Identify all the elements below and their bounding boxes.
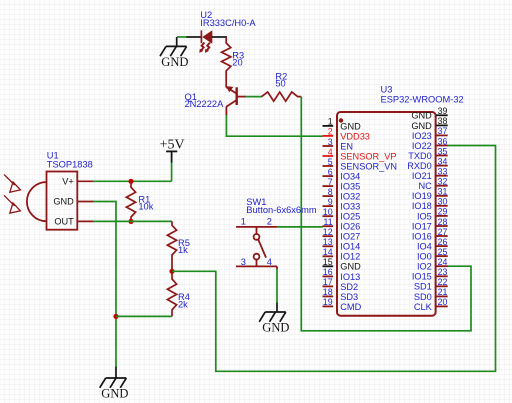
svg-text:3: 3 bbox=[328, 137, 333, 147]
wire SW1 pin 2 to IO26 pin 11 bbox=[277, 226, 323, 228]
svg-text:37: 37 bbox=[438, 126, 448, 136]
svg-text:SD0: SD0 bbox=[414, 292, 432, 302]
svg-text:GND: GND bbox=[161, 55, 188, 69]
svg-text:IO5: IO5 bbox=[417, 211, 432, 221]
junction node bbox=[128, 179, 133, 184]
svg-text:2: 2 bbox=[328, 127, 333, 137]
svg-text:5: 5 bbox=[328, 157, 333, 167]
svg-text:7: 7 bbox=[328, 177, 333, 187]
svg-text:IO22: IO22 bbox=[412, 141, 432, 151]
svg-text:12: 12 bbox=[323, 227, 333, 237]
svg-text:GND: GND bbox=[340, 262, 361, 272]
switch SW1 bbox=[236, 227, 277, 270]
svg-text:IO32: IO32 bbox=[340, 192, 360, 202]
junction node bbox=[128, 219, 133, 224]
svg-text:SD3: SD3 bbox=[340, 292, 358, 302]
svg-text:IO27: IO27 bbox=[340, 232, 360, 242]
ground (bottom-left GND flag) bbox=[100, 367, 127, 388]
svg-text:34: 34 bbox=[438, 156, 448, 166]
svg-text:22: 22 bbox=[438, 277, 448, 287]
IR arrows into U1 bbox=[4, 174, 20, 213]
svg-text:GND: GND bbox=[262, 321, 289, 335]
svg-text:6: 6 bbox=[328, 167, 333, 177]
svg-text:38: 38 bbox=[438, 116, 448, 126]
svg-text:50: 50 bbox=[275, 78, 285, 88]
svg-text:OUT: OUT bbox=[54, 216, 74, 226]
svg-text:IO2: IO2 bbox=[417, 262, 432, 272]
svg-text:IO12: IO12 bbox=[340, 252, 360, 262]
transistor Q1 bbox=[226, 87, 246, 115]
svg-text:2k: 2k bbox=[178, 300, 188, 310]
ground under SW1 bbox=[259, 303, 286, 322]
svg-text:20: 20 bbox=[232, 58, 242, 68]
junction node bbox=[169, 269, 174, 274]
svg-text:IO35: IO35 bbox=[340, 182, 360, 192]
svg-text:27: 27 bbox=[438, 227, 448, 237]
U3 left pin leads bbox=[323, 126, 334, 307]
svg-text:2: 2 bbox=[267, 217, 272, 227]
svg-text:18: 18 bbox=[323, 287, 333, 297]
svg-text:29: 29 bbox=[438, 207, 448, 217]
svg-text:RXD0: RXD0 bbox=[407, 161, 432, 171]
svg-text:13: 13 bbox=[323, 237, 333, 247]
resistor R3 bbox=[222, 37, 231, 73]
wire Q1 emitter to VDD33 pin 2 bbox=[226, 115, 322, 136]
svg-text:CMD: CMD bbox=[340, 302, 361, 312]
svg-text:IO33: IO33 bbox=[340, 202, 360, 212]
svg-text:TXD0: TXD0 bbox=[408, 151, 432, 161]
svg-text:IO17: IO17 bbox=[412, 221, 432, 231]
IR receiver U1 TSOP1838 bbox=[27, 172, 77, 230]
svg-text:+5V: +5V bbox=[160, 138, 185, 153]
svg-text:IO18: IO18 bbox=[412, 201, 432, 211]
svg-text:IO15: IO15 bbox=[412, 272, 432, 282]
svg-text:11: 11 bbox=[323, 217, 332, 227]
wire bbox=[187, 36, 202, 38]
wire V+ to +5V with junction at R1 bbox=[93, 180, 172, 182]
svg-text:30: 30 bbox=[438, 197, 448, 207]
svg-text:20: 20 bbox=[438, 297, 448, 307]
svg-text:15: 15 bbox=[323, 257, 333, 267]
svg-text:2N2222A: 2N2222A bbox=[185, 99, 225, 109]
svg-text:CLK: CLK bbox=[414, 302, 433, 312]
LED U2 bbox=[199, 30, 212, 53]
svg-text:9: 9 bbox=[328, 197, 333, 207]
svg-text:26: 26 bbox=[438, 237, 448, 247]
svg-text:IO19: IO19 bbox=[412, 191, 432, 201]
U3 left pin numbers bbox=[323, 117, 333, 308]
svg-text:IO0: IO0 bbox=[417, 252, 432, 262]
svg-text:23: 23 bbox=[438, 267, 448, 277]
wire SW1 pin 4 to ground bbox=[276, 269, 278, 303]
svg-text:IO16: IO16 bbox=[412, 231, 432, 241]
svg-text:SD1: SD1 bbox=[414, 282, 432, 292]
wire +5V down to V+ net bbox=[171, 163, 173, 182]
svg-text:14: 14 bbox=[323, 247, 333, 257]
svg-text:10k: 10k bbox=[138, 202, 153, 212]
svg-text:4: 4 bbox=[267, 257, 272, 267]
svg-text:IO34: IO34 bbox=[340, 172, 360, 182]
svg-text:17: 17 bbox=[323, 277, 333, 287]
svg-text:19: 19 bbox=[323, 297, 333, 307]
svg-text:IO21: IO21 bbox=[412, 171, 432, 181]
svg-text:25: 25 bbox=[438, 247, 448, 257]
svg-text:EN: EN bbox=[340, 141, 353, 151]
wire U1 GND down to ground bbox=[93, 202, 116, 368]
svg-text:GND: GND bbox=[411, 111, 432, 121]
svg-text:IR333C/H0-A: IR333C/H0-A bbox=[200, 18, 256, 28]
resistor R5 bbox=[167, 221, 176, 271]
svg-text:35: 35 bbox=[438, 146, 448, 156]
svg-text:GND: GND bbox=[411, 121, 432, 131]
svg-text:1: 1 bbox=[241, 217, 246, 227]
svg-text:VDD33: VDD33 bbox=[340, 131, 370, 141]
junction node bbox=[113, 314, 118, 319]
svg-text:IO23: IO23 bbox=[412, 131, 432, 141]
wire LED anode to GND (green stub) bbox=[177, 36, 187, 38]
svg-text:GND: GND bbox=[340, 121, 361, 131]
svg-text:16: 16 bbox=[323, 267, 333, 277]
svg-text:IO25: IO25 bbox=[340, 212, 360, 222]
svg-text:SENSOR_VN: SENSOR_VN bbox=[340, 161, 397, 171]
svg-text:SENSOR_VP: SENSOR_VP bbox=[340, 151, 396, 161]
svg-text:32: 32 bbox=[438, 177, 448, 187]
svg-text:U3: U3 bbox=[381, 84, 393, 94]
svg-text:33: 33 bbox=[438, 167, 448, 177]
U3 right pin numbers bbox=[438, 106, 448, 307]
svg-text:21: 21 bbox=[438, 287, 448, 297]
svg-text:1: 1 bbox=[328, 117, 333, 127]
U3 right pin leads bbox=[436, 115, 448, 306]
ground under U2 (top-left GND flag) bbox=[160, 37, 187, 56]
svg-text:SD2: SD2 bbox=[340, 282, 358, 292]
resistor R4 bbox=[167, 271, 176, 316]
svg-text:V+: V+ bbox=[62, 176, 74, 186]
wire LED cathode to R3 bbox=[212, 36, 227, 38]
svg-text:GND: GND bbox=[101, 387, 128, 401]
wire Q1 base to R2 bbox=[246, 96, 263, 98]
svg-text:36: 36 bbox=[438, 136, 448, 146]
resistor R2 bbox=[262, 92, 302, 101]
svg-text:39: 39 bbox=[438, 106, 448, 116]
svg-text:3: 3 bbox=[241, 257, 246, 267]
wire divider tap to IO22 pin 36 (down at x=216, right at y=371, up at x=495) bbox=[172, 146, 496, 372]
U1 pin stubs bbox=[77, 181, 94, 221]
svg-text:24: 24 bbox=[438, 257, 448, 267]
resistor R1 bbox=[126, 181, 135, 221]
U3 left pin names bbox=[340, 121, 397, 311]
U3 right pin names bbox=[407, 111, 432, 312]
svg-text:IO13: IO13 bbox=[340, 272, 360, 282]
svg-text:NC: NC bbox=[419, 181, 433, 191]
pin 1 indicator dot bbox=[339, 118, 343, 122]
svg-text:IO14: IO14 bbox=[340, 242, 360, 252]
svg-text:IO26: IO26 bbox=[340, 222, 360, 232]
svg-text:Button-6x6x6mm: Button-6x6x6mm bbox=[246, 205, 317, 215]
svg-text:31: 31 bbox=[438, 187, 448, 197]
svg-text:ESP32-WROOM-32: ESP32-WROOM-32 bbox=[381, 95, 464, 105]
svg-text:8: 8 bbox=[328, 187, 333, 197]
svg-text:4: 4 bbox=[328, 147, 333, 157]
svg-text:IO4: IO4 bbox=[417, 242, 432, 252]
svg-text:GND: GND bbox=[53, 197, 74, 207]
svg-text:1k: 1k bbox=[178, 245, 188, 255]
wire U1 OUT to R5 bbox=[93, 220, 172, 222]
svg-text:TSOP1838: TSOP1838 bbox=[47, 159, 93, 169]
IC U3 ESP32-WROOM-32 bbox=[337, 112, 436, 316]
svg-text:10: 10 bbox=[323, 207, 333, 217]
wire R2 to IO2 net (down at x=301, right at y=331, up to pin 24) bbox=[301, 97, 471, 331]
wire R4 bottom to ground junction bbox=[116, 315, 172, 317]
svg-text:28: 28 bbox=[438, 217, 448, 227]
